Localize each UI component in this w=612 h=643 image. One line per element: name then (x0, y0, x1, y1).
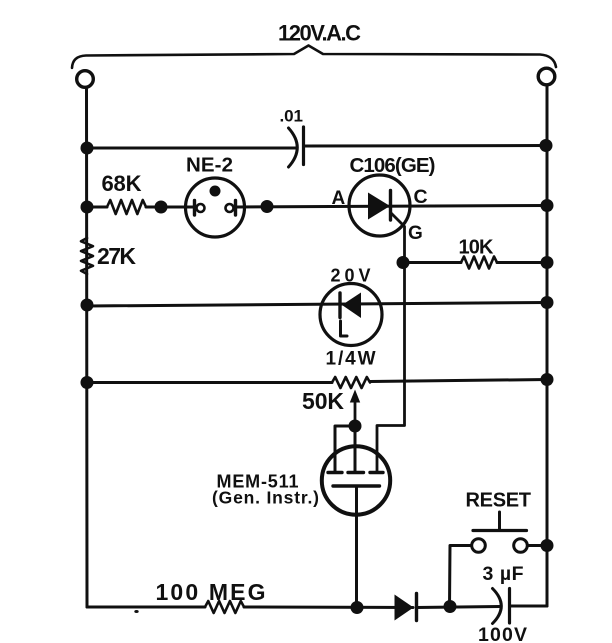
svg-text:1/4W: 1/4W (326, 349, 376, 370)
svg-text:20V: 20V (331, 266, 371, 286)
svg-text:68K: 68K (102, 171, 142, 196)
svg-text:A: A (332, 188, 346, 209)
svg-text:120V.A.C: 120V.A.C (278, 21, 361, 46)
svg-text:RESET: RESET (466, 490, 532, 512)
svg-text:.01: .01 (280, 107, 304, 126)
svg-text:100V: 100V (478, 624, 527, 643)
svg-text:50K: 50K (302, 388, 344, 414)
svg-text:10K: 10K (459, 237, 495, 259)
svg-text:C: C (414, 186, 428, 208)
svg-text:G: G (408, 223, 423, 244)
svg-text:NE-2: NE-2 (186, 154, 233, 177)
svg-text:27K: 27K (97, 243, 136, 269)
svg-text:100 MEG: 100 MEG (156, 579, 266, 605)
svg-text:C106(GE): C106(GE) (350, 154, 436, 177)
svg-text:(Gen. Instr.): (Gen. Instr.) (212, 488, 319, 508)
svg-text:3 µF: 3 µF (483, 563, 524, 585)
